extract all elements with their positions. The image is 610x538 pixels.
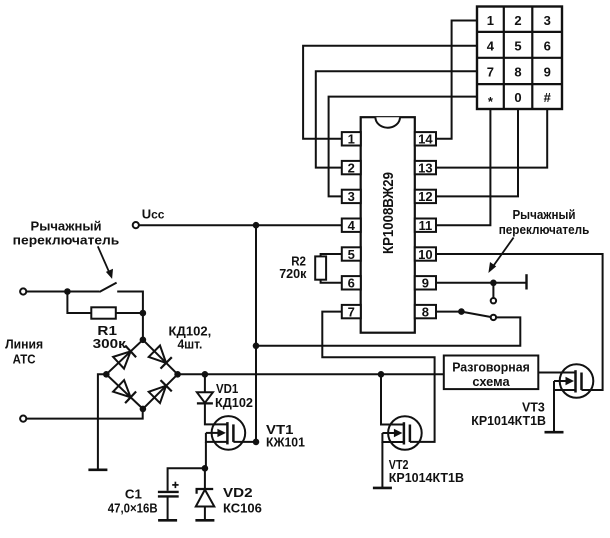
op-amp/IC DD1 КР1008ВЖ29 body [361, 117, 415, 333]
wire pin 8 contact to supply rail [256, 317, 520, 345]
IC pin box 5 [342, 247, 361, 260]
svg-text:АТС: АТС [13, 352, 37, 367]
ground (VT3) [545, 431, 564, 434]
wire keypad column 3 to pin 13 [436, 109, 547, 168]
transistor VT2 source lead [382, 433, 404, 442]
arrow pointer to hook switch (right) [492, 238, 514, 269]
IC pin box 9 [415, 276, 436, 289]
node line terminal b [20, 416, 26, 422]
transistor VT3 gate bar [574, 370, 577, 392]
svg-text:Рычажный: Рычажный [31, 219, 102, 234]
wire junction to open contact [492, 283, 494, 298]
IC pin box 11 [415, 219, 436, 232]
svg-text:Ucc: Ucc [142, 207, 165, 222]
junction pin 9 wire [490, 280, 497, 287]
bridge diode VD6 (КД102) [149, 386, 166, 403]
svg-text:300к: 300к [93, 336, 127, 351]
junction switch / R1 branch [64, 288, 71, 295]
svg-text:2: 2 [348, 160, 355, 175]
ground (VD2) [195, 519, 214, 522]
wire DC rail to speech-circuit box [178, 373, 444, 375]
junction VT1 source / C1 / VD2 [202, 465, 209, 472]
wire R1 branch down [67, 292, 91, 314]
keypad S1 outline [477, 7, 562, 110]
wire terminal a to switch [26, 291, 99, 293]
wire box to VT3 gate [538, 372, 575, 374]
wire VT3 source to ground [553, 390, 555, 432]
svg-text:12: 12 [418, 189, 432, 204]
transistor VT1 body circle [212, 416, 246, 450]
svg-text:9: 9 [422, 276, 429, 291]
resistor R1 body [91, 307, 116, 318]
IC pin box 13 [415, 161, 436, 174]
svg-text:VD2: VD2 [223, 485, 253, 500]
wire VD2 to ground [204, 507, 206, 521]
capacitor C1 top plate [158, 491, 179, 493]
wire junction to C1 [168, 468, 205, 491]
junction pin 8 [458, 308, 465, 315]
transistor VT1 channel bar [232, 424, 235, 442]
wire VT2 gate feed [381, 374, 404, 424]
wire keypad row 4 to pin 3 [329, 97, 477, 197]
svg-text:11: 11 [419, 218, 433, 233]
svg-text:4: 4 [487, 39, 495, 54]
keypad row separator 3 [477, 83, 562, 85]
wire keypad column 2 to pin 12 [436, 109, 518, 196]
wire C1 to ground [167, 498, 169, 521]
wire terminal b to bridge bottom [26, 409, 142, 419]
wire bridge edge bottom-left [106, 374, 143, 409]
svg-text:0: 0 [514, 90, 521, 105]
svg-text:5: 5 [348, 247, 355, 262]
transistor VT2 body circle [388, 416, 422, 450]
svg-text:Линия: Линия [5, 337, 43, 352]
svg-text:7: 7 [487, 65, 494, 80]
arrow pointer to lever switch (left) [98, 246, 110, 272]
svg-text:Разговорная: Разговорная [452, 360, 530, 375]
svg-text:47,0×16В: 47,0×16В [108, 501, 158, 516]
hook-switch fixed contact bar [525, 274, 527, 289]
svg-text:3: 3 [544, 13, 551, 28]
zener VD2 cathode bar with hook [197, 489, 214, 494]
svg-text:7: 7 [348, 304, 355, 319]
IC pin box 14 [415, 132, 436, 145]
svg-text:6: 6 [544, 39, 551, 54]
svg-text:Рычажный: Рычажный [512, 207, 575, 222]
svg-text:5: 5 [514, 39, 521, 54]
svg-text:КР1014КТ1В: КР1014КТ1В [389, 470, 464, 485]
junction bridge top [140, 337, 147, 344]
wire bridge edge top-left [106, 340, 143, 375]
svg-text:10: 10 [418, 247, 432, 262]
svg-text:4: 4 [348, 218, 356, 233]
svg-text:переключатель: переключатель [499, 222, 590, 237]
junction VT2 gate tap [378, 371, 385, 378]
wire pin 10 to VT3 drain [436, 254, 603, 390]
wire bridge edge top-right [143, 340, 178, 375]
svg-text:переключатель: переключатель [13, 233, 120, 248]
transistor VT2 substrate arrow [382, 432, 395, 434]
IC pin box 3 [342, 190, 361, 203]
block Разговорная схема box [444, 356, 539, 390]
node Ucc terminal [133, 222, 139, 228]
open contact circle (pin 8 side) [491, 315, 496, 320]
wire bridge edge bottom-right [143, 374, 178, 409]
transistor VT2 channel bar [409, 425, 412, 443]
IC pin box 1 [342, 132, 361, 145]
svg-text:2: 2 [514, 13, 521, 28]
wire R2 bottom to pin 6 [321, 280, 342, 283]
svg-text:КС106: КС106 [223, 500, 262, 515]
transistor VT2 gate bar [403, 422, 406, 444]
junction supply rail / hook-switch return [253, 343, 260, 350]
IC pin box 12 [415, 190, 436, 203]
transistor VT3 source lead [554, 381, 576, 390]
wire junction to VD2 [204, 468, 206, 489]
wire supply rail vertical [255, 225, 257, 442]
junction supply rail / VT1 drain [253, 439, 260, 446]
transistor VT1 source lead [206, 433, 228, 442]
ground (VT2) [373, 487, 392, 490]
transistor VT3 substrate arrow [554, 380, 567, 382]
wire VT1 source down [205, 442, 207, 468]
IC pin box 7 [342, 305, 361, 318]
svg-text:КЖ101: КЖ101 [266, 435, 305, 450]
wire pin 9 to hook-switch contact [436, 282, 527, 284]
svg-text:720к: 720к [279, 266, 307, 281]
resistor R2 body [315, 256, 326, 279]
hook-switch lever blade [461, 312, 490, 317]
IC pin box 8 [415, 305, 436, 318]
svg-text:схема: схема [472, 374, 510, 389]
junction VD1 tap [202, 371, 209, 378]
svg-text:6: 6 [348, 276, 355, 291]
svg-text:КД102: КД102 [215, 395, 253, 410]
wire VT2 source to ground [381, 442, 383, 488]
wire Ucc to pin 4 [139, 224, 342, 226]
junction R1 / switch [140, 310, 147, 317]
wire R2 top to pin 5 [321, 254, 342, 256]
diode VD1 cathode bar [197, 402, 213, 404]
svg-text:13: 13 [418, 160, 432, 175]
node line terminal a [20, 288, 26, 294]
capacitor C1 bottom plate [158, 495, 179, 497]
wire VD1 to VT1 gate [205, 403, 228, 424]
diode VD1 anode lead [204, 374, 206, 392]
wire pin 8 stub [436, 311, 461, 313]
svg-text:VD1: VD1 [216, 381, 238, 396]
IC pin box 6 [342, 276, 361, 289]
junction Ucc / supply rail [253, 222, 260, 229]
svg-text:14: 14 [418, 132, 433, 147]
IC pin box 10 [415, 247, 436, 260]
transistor VT3 channel bar [580, 373, 583, 391]
wire keypad row 2 to pin 1 [303, 46, 477, 139]
wire bridge left to ground [98, 374, 106, 470]
svg-text:КР1008ВЖ29: КР1008ВЖ29 [381, 172, 397, 254]
open contact circle (pin 9 side) [491, 298, 496, 303]
ground (bridge left) [88, 468, 107, 471]
junction bridge left [103, 371, 110, 378]
lever switch SA1 blade [99, 283, 116, 292]
transistor VT1 gate bar [226, 422, 229, 444]
wire switch fixed side [117, 292, 143, 340]
IC pin box 4 [342, 219, 361, 232]
transistor VT1 substrate arrow [206, 432, 219, 434]
svg-text:3: 3 [348, 189, 355, 204]
wire keypad row 3 to pin 2 [316, 71, 477, 167]
svg-text:1: 1 [487, 13, 494, 28]
wire VT1 drain to supply rail [233, 441, 256, 443]
svg-text:4шт.: 4шт. [177, 337, 202, 352]
svg-text:С1: С1 [125, 487, 142, 502]
junction bridge right [174, 371, 181, 378]
svg-text:9: 9 [544, 65, 551, 80]
svg-text:8: 8 [514, 65, 521, 80]
wire R1 to junction [116, 312, 143, 314]
diode VD1 triangle [197, 392, 213, 403]
zener VD2 triangle [196, 490, 215, 507]
svg-text:КР1014КТ1В: КР1014КТ1В [471, 413, 546, 428]
IC pin box 2 [342, 161, 361, 174]
capacitor C1 plus sign [174, 482, 176, 488]
junction bridge bottom [140, 406, 147, 413]
transistor VT3 body circle [560, 364, 594, 398]
svg-text:#: # [544, 90, 552, 105]
bridge diode VD5 (КД102) [113, 380, 131, 397]
svg-text:1: 1 [348, 132, 355, 147]
bridge diode VD3 (КД102) [113, 351, 131, 368]
bridge diode VD4 (КД102) [149, 346, 166, 363]
IC DD1 top notch [375, 117, 400, 128]
keypad row separator 1 [477, 31, 562, 33]
svg-text:8: 8 [422, 304, 429, 319]
keypad row separator 2 [477, 57, 562, 59]
wire pin 7 to VT2 drain [322, 312, 434, 442]
wire keypad column 1 to pin 11 [436, 109, 490, 225]
keypad column separator 1 [503, 7, 505, 110]
wire keypad row 1 to pin 14 [436, 21, 477, 139]
ground (C1) [158, 519, 177, 522]
keypad column separator 2 [531, 7, 533, 110]
